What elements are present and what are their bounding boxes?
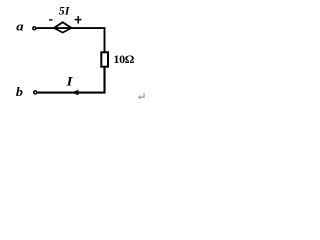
dependent source diamond — [52, 21, 73, 33]
svg-text:I: I — [66, 75, 73, 89]
polarity minus — [49, 19, 52, 20]
svg-text:a: a — [16, 20, 23, 34]
wire bottom — [37, 67, 104, 93]
current arrowhead — [71, 90, 78, 95]
svg-text:b: b — [16, 84, 23, 98]
svg-text:10Ω: 10Ω — [113, 52, 134, 66]
terminal b — [34, 91, 37, 94]
paragraph return mark — [140, 93, 144, 97]
polarity plus — [75, 19, 82, 21]
svg-text:5I: 5I — [59, 3, 71, 17]
terminal a — [33, 27, 36, 30]
wire top — [37, 28, 105, 52]
resistor box — [101, 52, 108, 66]
